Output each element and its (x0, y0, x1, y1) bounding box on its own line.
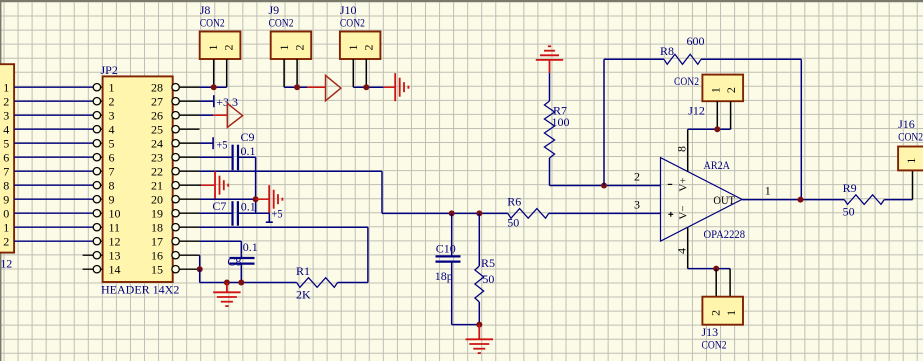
op-amp pin 8 (687, 129, 689, 172)
JP2 pin 13 stub (83, 252, 103, 259)
svg-text:8: 8 (109, 179, 115, 193)
svg-text:12: 12 (109, 235, 121, 249)
label R8 (660, 44, 674, 58)
svg-text:0: 0 (3, 207, 9, 221)
wire J9 pins (284, 86, 325, 88)
svg-text:21: 21 (151, 179, 163, 193)
value 50 (R5) (482, 272, 494, 286)
pin number 2 (634, 169, 640, 183)
svg-text:18p: 18p (435, 269, 453, 283)
svg-text:1: 1 (904, 158, 918, 164)
svg-text:1: 1 (3, 81, 9, 95)
svg-text:3: 3 (109, 109, 115, 123)
svg-text:18: 18 (151, 221, 163, 235)
pin number 1 (output) (765, 184, 771, 198)
JP2 pin 3 circle (93, 112, 100, 119)
JP2 pin 22 stub (172, 168, 200, 175)
power +3.3 (214, 95, 238, 109)
resistor R9 (844, 195, 884, 205)
svg-text:19: 19 (151, 207, 163, 221)
power +5 (C7) (266, 207, 283, 223)
ground (R5/C10) (466, 325, 493, 354)
junction ground (R5) (476, 322, 482, 328)
svg-text:0.1: 0.1 (241, 144, 256, 158)
plus sign (non-inverting input) (668, 212, 673, 217)
label CON2 (J13) (702, 337, 727, 351)
svg-text:8: 8 (3, 179, 9, 193)
svg-text:3: 3 (3, 109, 9, 123)
wire pin21 to ground (200, 184, 216, 186)
label J9 (269, 3, 280, 17)
svg-text:1: 1 (724, 310, 738, 316)
wire J10 pins to ground (353, 86, 395, 88)
junction J12 pin1 (714, 126, 720, 132)
wire pin23 to C9 (200, 156, 233, 158)
JP2 pin 2 circle (93, 98, 100, 105)
junction J13 pin2 (713, 266, 719, 272)
svg-text:16: 16 (151, 249, 163, 263)
wire from left connector pin 6 to JP2 pin 6 (14, 156, 103, 158)
svg-text:C9: C9 (241, 130, 255, 144)
svg-text:+5: +5 (272, 207, 283, 221)
svg-text:1: 1 (3, 221, 9, 235)
wire pin19 to C7 (200, 212, 233, 214)
svg-text:4: 4 (3, 123, 9, 137)
label R1 (296, 264, 310, 278)
svg-text:CON2: CON2 (702, 337, 727, 351)
svg-text:J12: J12 (688, 103, 705, 117)
svg-text:2: 2 (361, 44, 375, 50)
pin number 4 (rotated) (675, 248, 689, 254)
ground (pin21) (215, 171, 228, 199)
svg-text:4: 4 (109, 123, 115, 137)
JP2 pin 25 stub (172, 126, 200, 133)
resistor R6 (508, 209, 549, 219)
JP2 pin 28 stub (172, 84, 200, 91)
svg-text:25: 25 (151, 123, 163, 137)
wire J12 to op-amp pin8 (688, 128, 731, 130)
junction ground (bottom net) (224, 280, 230, 286)
label J8 (200, 3, 211, 17)
value 600 (687, 34, 705, 48)
JP2 pin 16 stub (172, 252, 200, 259)
svg-text:CON2: CON2 (200, 16, 225, 30)
wire from left connector pin 7 to JP2 pin 7 (14, 170, 103, 172)
svg-text:2: 2 (708, 310, 722, 316)
ground (R7 top) (536, 46, 563, 60)
svg-text:20: 20 (151, 193, 163, 207)
value 100 (552, 115, 570, 129)
wire pin18 long (200, 227, 368, 282)
value 0.1 (C7) (241, 200, 256, 214)
svg-text:7: 7 (3, 165, 9, 179)
wire bottom net (200, 282, 297, 284)
resistor R7 (544, 101, 554, 158)
label J13 (702, 325, 719, 339)
value 2K (296, 288, 311, 302)
label J16 (898, 117, 915, 131)
resistor R8 (664, 54, 701, 64)
svg-text:8: 8 (675, 146, 689, 152)
label CON2 (J8) (200, 16, 225, 30)
J12 pin 1 (716, 101, 718, 129)
svg-text:14: 14 (109, 263, 121, 277)
svg-text:C7: C7 (212, 199, 226, 213)
wire pin22 long (200, 171, 383, 213)
svg-text:1: 1 (206, 44, 220, 50)
junction node pin20/C9 (253, 196, 259, 202)
junction pins15/16 (197, 266, 203, 272)
svg-text:17: 17 (151, 235, 163, 249)
wire from left connector pin 5 to JP2 pin 5 (14, 142, 103, 144)
svg-text:R9: R9 (843, 181, 857, 195)
svg-text:11: 11 (109, 221, 121, 235)
capacitor C9 (233, 145, 238, 171)
svg-text:HEADER 14X2: HEADER 14X2 (101, 283, 179, 297)
junction feedback (pin2) (601, 183, 607, 189)
label V+ (rotated) (678, 177, 690, 191)
label C7 (212, 199, 226, 213)
wire op-amp pin4 to J13 (688, 268, 730, 270)
JP2 pin 19 stub (172, 210, 200, 217)
svg-text:2: 2 (3, 95, 9, 109)
junction at J8 pin1 (211, 84, 217, 90)
JP2 pin 4 circle (93, 126, 100, 133)
JP2 pin 9 circle (93, 196, 100, 203)
svg-text:23: 23 (151, 151, 163, 165)
svg-text:9: 9 (109, 193, 115, 207)
svg-text:OUT: OUT (713, 193, 735, 207)
connector J12 CON2 (702, 75, 743, 102)
op-amp AR2A OPA2228 (661, 158, 743, 242)
svg-text:C10: C10 (436, 242, 456, 256)
J9 pin 2 (296, 59, 298, 87)
JP2 pin 17 stub (172, 238, 200, 245)
value 18p (435, 269, 453, 283)
svg-text:2: 2 (3, 235, 9, 249)
capacitor C10 (436, 256, 461, 261)
svg-text:1: 1 (765, 184, 771, 198)
wire middle net (382, 212, 508, 214)
wire op-amp output (742, 199, 844, 201)
svg-text:V+: V+ (678, 177, 690, 191)
svg-text:2: 2 (920, 158, 923, 164)
J8 pin 1 (213, 59, 215, 87)
svg-text:5: 5 (3, 137, 9, 151)
svg-text:50: 50 (507, 216, 519, 230)
capacitor C8 (230, 258, 255, 283)
wire R9 to J16 (884, 170, 912, 199)
wire from left connector pin 9 to JP2 pin 9 (14, 198, 103, 200)
wire from left connector pin 12 to JP2 pin 12 (14, 240, 103, 242)
ground (bottom net) (213, 283, 240, 307)
J9 pin 1 (283, 59, 285, 87)
label CON2 (J16) (898, 130, 923, 144)
svg-text:1: 1 (708, 87, 722, 93)
svg-text:+5: +5 (216, 138, 227, 152)
svg-text:12: 12 (0, 257, 12, 271)
svg-text:2: 2 (634, 169, 640, 183)
svg-text:600: 600 (687, 34, 705, 48)
wire from left connector pin 3 to JP2 pin 3 (14, 114, 103, 116)
svg-text:C8: C8 (227, 255, 241, 269)
resistor R5 (475, 213, 484, 324)
svg-text:24: 24 (151, 137, 163, 151)
svg-text:V−: V− (678, 205, 690, 219)
JP2 pin 23 stub (172, 154, 200, 161)
svg-text:1: 1 (277, 44, 291, 50)
svg-text:2: 2 (292, 44, 306, 50)
wire pin15 down to bottom net (199, 269, 201, 282)
svg-text:OPA2228: OPA2228 (704, 227, 746, 241)
svg-text:15: 15 (151, 263, 163, 277)
svg-text:5: 5 (109, 137, 115, 151)
JP2 pin 26 stub (172, 112, 200, 119)
svg-text:AR2A: AR2A (704, 158, 731, 172)
label R5 (481, 256, 495, 270)
svg-text:R1: R1 (296, 264, 310, 278)
JP2 pin 5 circle (93, 140, 100, 147)
label C10 (436, 242, 456, 256)
JP2 pin 6 circle (93, 154, 100, 161)
svg-text:1: 1 (346, 44, 360, 50)
connector P12 (left edge, partially visible) (0, 64, 14, 252)
svg-text:CON2: CON2 (269, 16, 294, 30)
power port arrow (+3.3 net) (227, 103, 242, 127)
svg-text:26: 26 (151, 109, 163, 123)
wire R8 to output (701, 59, 801, 199)
svg-text:0.1: 0.1 (241, 200, 256, 214)
JP2 pin 14 stub (83, 266, 103, 273)
junction C8 (bottom net) (238, 280, 244, 286)
label OUT (713, 193, 735, 207)
svg-text:0.1: 0.1 (243, 240, 258, 254)
pin number 8 (rotated) (675, 146, 689, 152)
svg-text:100: 100 (552, 115, 570, 129)
svg-text:1: 1 (109, 81, 115, 95)
minus sign (inverting input) (668, 183, 672, 185)
wire pin24 to +5 (200, 142, 214, 144)
JP2 pin 11 circle (93, 224, 100, 231)
JP2 pin 8 circle (93, 182, 100, 189)
wire pin16 corner (199, 255, 201, 269)
label AR2A (704, 158, 731, 172)
svg-text:50: 50 (843, 205, 855, 219)
wire C10 bottom (452, 262, 480, 325)
svg-text:9: 9 (3, 193, 9, 207)
JP2 pin 21 stub (172, 182, 200, 189)
connector J13 CON2 (702, 297, 743, 325)
junction R5 (476, 210, 482, 216)
wire pin27 to +3.3 (200, 100, 214, 102)
JP2 pin 18 stub (172, 224, 200, 231)
JP2 pin 27 stub (172, 98, 200, 105)
wire from left connector pin 1 to JP2 pin 1 (14, 86, 103, 88)
svg-text:CON2: CON2 (898, 130, 923, 144)
value 0.1 (C9) (241, 144, 256, 158)
svg-text:2: 2 (221, 44, 235, 50)
svg-text:R5: R5 (481, 256, 495, 270)
svg-text:R6: R6 (507, 195, 521, 209)
wire from left connector pin 11 to JP2 pin 11 (14, 226, 103, 228)
svg-text:28: 28 (151, 81, 163, 95)
ground (J10) (395, 73, 408, 101)
J8 pin 2 (226, 59, 228, 87)
connector J9 CON2 (271, 32, 312, 60)
svg-text:10: 10 (109, 207, 121, 221)
label R7 (553, 103, 567, 117)
connector J10 CON2 (340, 32, 381, 60)
wire R6 to op-amp pin3 (549, 212, 661, 214)
svg-text:CON2: CON2 (340, 16, 365, 30)
JP2 pin 20 stub (172, 196, 200, 203)
power port arrow (J9) (326, 75, 341, 100)
wire feedback up (604, 59, 664, 185)
wire from left connector pin 8 to JP2 pin 8 (14, 184, 103, 186)
J10 pin 2 (365, 59, 367, 87)
svg-text:2K: 2K (296, 288, 311, 302)
JP2 pin 10 circle (93, 210, 100, 217)
label OPA2228 (704, 227, 746, 241)
label CON2 (J12) (674, 74, 699, 88)
junction at J10 pin2 (363, 84, 369, 90)
J10 pin 1 (352, 59, 354, 87)
svg-text:CON2: CON2 (674, 74, 699, 88)
wire C7 to +5 (238, 213, 269, 222)
value 50 (R9) (843, 205, 855, 219)
label J12 (688, 103, 705, 117)
JP2 pin 1 circle (93, 84, 100, 91)
label C9 (241, 130, 255, 144)
label CON2 (J10) (340, 16, 365, 30)
svg-text:6: 6 (3, 151, 9, 165)
value 50 (R6) (507, 216, 519, 230)
label R9 (843, 181, 857, 195)
junction at J9 pin2 (294, 84, 300, 90)
op-amp pin 4 (687, 228, 689, 269)
J12 pin 2 (730, 101, 732, 129)
JP2 pin 12 circle (93, 238, 100, 245)
designator 12 (0, 257, 12, 271)
ground (pin20 node) (269, 185, 282, 213)
JP2 pin 7 circle (93, 168, 100, 175)
resistor R1 (297, 278, 338, 288)
svg-text:2: 2 (724, 87, 738, 93)
svg-text:6: 6 (109, 151, 115, 165)
capacitor C7 (233, 201, 238, 226)
wire pin20 to node (200, 198, 256, 200)
svg-text:50: 50 (482, 272, 494, 286)
label V- (rotated) (678, 205, 690, 219)
svg-text:2: 2 (109, 95, 115, 109)
wire pin17 to C8 (200, 241, 242, 258)
junction feedback (output) (798, 197, 804, 203)
wire JP2 pin28 to J8 (200, 86, 227, 88)
power +5 (pin24) (213, 137, 227, 151)
label CON2 (J9) (269, 16, 294, 30)
wire node to ground (256, 198, 270, 200)
wire pin26 to arrow (200, 114, 228, 116)
JP2 pin 15 stub (172, 266, 200, 273)
value 0.1 (C8) (243, 240, 258, 254)
label R6 (507, 195, 521, 209)
svg-text:13: 13 (109, 249, 121, 263)
svg-text:7: 7 (109, 165, 115, 179)
wire from left connector pin 10 to JP2 pin 10 (14, 212, 103, 214)
wire C9 to node (238, 157, 256, 213)
wire R7 to pin2 net (549, 158, 551, 186)
wire ground to R7 (549, 60, 551, 101)
header JP2 HEADER 14X2 (103, 76, 173, 282)
label C8 (227, 255, 241, 269)
connector J16 CON2 (partially visible) (898, 147, 923, 171)
J13 pin 2 lead (715, 269, 717, 297)
label J10 (340, 3, 357, 17)
wire from left connector pin 2 to JP2 pin 2 (14, 100, 103, 102)
svg-text:3: 3 (634, 197, 640, 211)
JP2 pin 24 stub (172, 140, 200, 147)
svg-text:R8: R8 (660, 44, 674, 58)
svg-text:22: 22 (151, 165, 163, 179)
svg-text:27: 27 (151, 95, 163, 109)
J13 pin 1 lead (729, 269, 731, 297)
wire pin2 net (550, 185, 661, 187)
connector J8 CON2 (200, 32, 241, 60)
wire from left connector pin 4 to JP2 pin 4 (14, 128, 103, 130)
wire C10 top (451, 213, 453, 256)
label HEADER 14X2 (101, 283, 179, 297)
pin number 3 (634, 197, 640, 211)
wire R1 to pin18 net (338, 282, 368, 284)
junction C10 (449, 210, 455, 216)
svg-text:4: 4 (675, 248, 689, 254)
label JP2 (101, 63, 118, 77)
svg-text:JP2: JP2 (101, 63, 118, 77)
